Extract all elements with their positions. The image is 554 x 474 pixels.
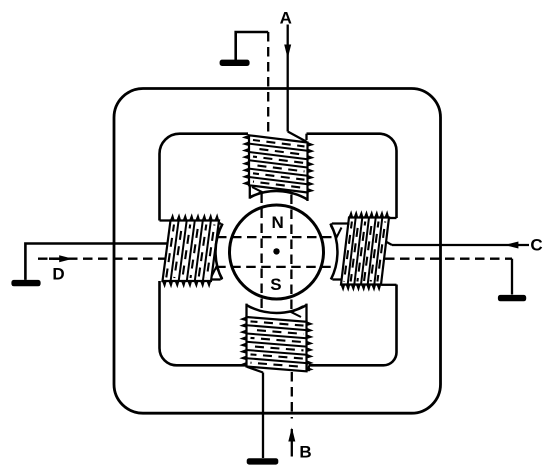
ground symbol (coil C): [498, 295, 526, 301]
wire ground B diagonal: [247, 367, 263, 373]
wire terminal B vertical: [291, 429, 293, 457]
wire terminal A vertical: [287, 25, 289, 132]
rotor label N: [272, 213, 284, 232]
wire (dashed) coil C lead through rotor: [217, 236, 337, 238]
terminal label A: [280, 9, 292, 28]
coil D wire exit flag: [212, 267, 223, 279]
pole shoe bottom: [247, 304, 307, 322]
ground symbol (coil B): [247, 458, 279, 464]
wire (dashed) terminal B: [291, 372, 293, 419]
stator inner cavity: [160, 134, 397, 366]
svg-text:S: S: [270, 275, 281, 294]
wire (dashed) terminal D: [38, 258, 166, 260]
wire (dashed) ground C horizontal: [385, 258, 512, 260]
winding A (top pole coil): [242, 135, 315, 193]
winding D (left pole coil): [162, 213, 220, 288]
terminal label D: [52, 264, 64, 283]
rotor center dot: [273, 248, 279, 254]
pole shoe left: [211, 224, 222, 280]
wire ground A horizontal: [236, 32, 269, 61]
svg-text:D: D: [52, 264, 64, 283]
terminal label B: [299, 443, 311, 462]
pole neck stub right-top: [389, 217, 396, 219]
pole neck stub bottom-right: [308, 365, 310, 371]
rotor label S: [270, 275, 281, 294]
coil B wire exit flag: [291, 306, 303, 317]
pole neck stub top-right: [305, 134, 307, 140]
terminal label C: [530, 236, 542, 255]
arrowhead B (up): [288, 428, 295, 442]
svg-text:A: A: [280, 9, 292, 28]
arrowhead A (down): [284, 45, 291, 59]
pole shoe top: [250, 186, 308, 201]
wire C entry diagonal: [386, 242, 392, 245]
winding C (right pole coil): [340, 210, 389, 291]
wire (dashed) coil A return through rotor: [260, 194, 262, 312]
coil A wire exit flag: [250, 187, 262, 198]
wire (dashed) ground A drop: [267, 32, 269, 135]
wire ground C drop: [511, 259, 513, 295]
wire ground B vertical: [262, 373, 264, 459]
ground symbol (coil D): [11, 280, 40, 286]
arrowhead C (left): [505, 242, 519, 249]
wire (dashed) coil D lead through rotor: [216, 266, 331, 268]
rotor: [230, 205, 324, 299]
pole neck stub right-bottom: [381, 284, 396, 286]
svg-text:C: C: [530, 236, 542, 255]
coil C wire exit flag: [331, 225, 342, 237]
wire ground D horizontal: [25, 244, 167, 280]
wire terminal C horizontal: [392, 244, 529, 246]
pole neck stub left-top: [160, 219, 171, 221]
wire A entry diagonal: [288, 132, 307, 142]
stator outer frame: [114, 89, 441, 414]
svg-text:B: B: [299, 443, 311, 462]
arrowhead D shaft: [49, 257, 61, 260]
winding B (bottom pole coil): [239, 316, 313, 372]
svg-text:N: N: [272, 213, 284, 232]
pole shoe right: [330, 224, 349, 280]
arrowhead D (right): [59, 255, 73, 262]
wire (dashed) coil B lead through rotor: [290, 195, 292, 313]
ground symbol (coil A): [220, 60, 250, 66]
